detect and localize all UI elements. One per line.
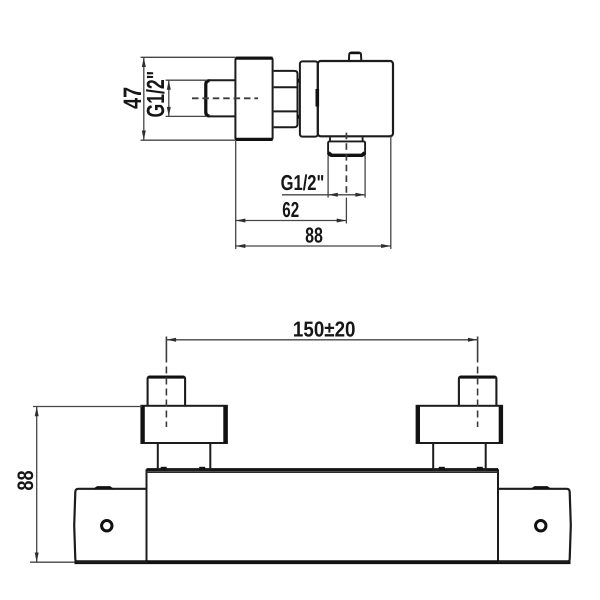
dim 47 extension line top [141,56,235,58]
nut edge tick lower [297,115,300,119]
dim 88 front arrow down [35,553,39,563]
outlet neck [330,137,363,141]
right inlet stem thick top [460,376,495,379]
union nut [274,71,298,127]
svg-text:150±20: 150±20 [293,316,356,341]
dim 88 line [236,245,391,247]
dim 47 arrow down [142,131,146,141]
dim 47 extension line bottom [141,139,235,141]
escutcheon (narrow piece) [300,61,318,136]
right connector centerline [477,337,479,363]
wall face extension line (62/88) [235,140,237,249]
left eccentric union [141,406,227,443]
right union thick right edge [499,406,503,443]
wall flange thick top edge [235,57,272,60]
left connector centerline [165,337,167,363]
dim G1/2 arrow down [167,107,171,117]
left union collar [158,443,211,470]
right inlet stem [459,377,497,406]
dim 88 front: extension top [33,406,142,408]
right collar foot marks [439,467,445,470]
bar body thick top edge [147,468,499,470]
horizontal centerline [192,97,258,99]
right handle [498,489,571,562]
left collar foot marks [161,467,167,470]
dim 88 front: extension bottom [30,561,75,563]
wall flange thick bottom edge [235,138,272,141]
right union thick left edge [416,406,420,443]
svg-text:62: 62 [282,197,299,222]
wall flange plate [235,58,272,140]
dim 47 arrow up [142,57,146,67]
dim 88 arrow right [381,244,391,248]
right eccentric union [417,406,503,443]
vertical centerline of outlet [345,133,347,197]
bar body top inner line [147,471,499,473]
dim 150 arrow left [166,338,176,342]
outlet dim extension left [327,156,329,198]
nut facet line upper [274,86,298,88]
outlet dim line [282,194,365,196]
dim G1/2 line [168,80,170,116]
body right extension line (88) [390,136,392,249]
left inlet stem [148,377,186,406]
left union thick right edge [223,406,227,443]
outlet arrow right [355,193,365,197]
dim 88 arrow left [236,244,246,248]
knob on top of body [349,53,361,61]
outlet nipple thick chamfered bottom [329,153,365,156]
left handle [74,489,146,562]
dim G1/2 extension bottom [166,115,207,117]
outlet arrow left [328,193,338,197]
left handle circle [102,521,112,531]
outlet dim extension right [364,156,366,198]
outlet nipple G1/2 [328,141,365,155]
svg-text:G1/2": G1/2" [143,71,170,118]
dim 62 line [236,220,347,222]
outlet center solid extension [345,198,347,224]
dim 62 arrow left [236,219,246,223]
nut facet line lower [274,110,298,112]
left handle index tab [95,487,112,488]
dim 150±20 line [166,339,477,341]
dim G1/2 arrow up [167,80,171,90]
dim 150 arrow right [468,338,478,342]
dim G1/2 extension top [166,79,207,81]
dim 62 arrow right [337,219,347,223]
bar body thick bottom edge [75,560,571,564]
bar body [147,470,499,562]
nipple thick left edge [206,81,210,116]
right handle circle [536,521,546,531]
G1/2 wall nipple [205,80,235,116]
dim 47 line [143,57,145,140]
dim 88 front line [36,407,38,563]
nut edge tick upper [297,79,300,83]
left union thick left edge [141,406,145,443]
svg-text:G1/2": G1/2" [281,170,325,195]
left inlet stem thick top [149,376,184,379]
svg-text:88: 88 [305,223,323,248]
dim 88 front arrow up [35,407,39,417]
right union collar [433,443,486,470]
main valve body [318,61,393,136]
right handle index tab [533,487,550,488]
seam mark on body left edge [315,89,319,107]
svg-text:88: 88 [13,470,38,490]
